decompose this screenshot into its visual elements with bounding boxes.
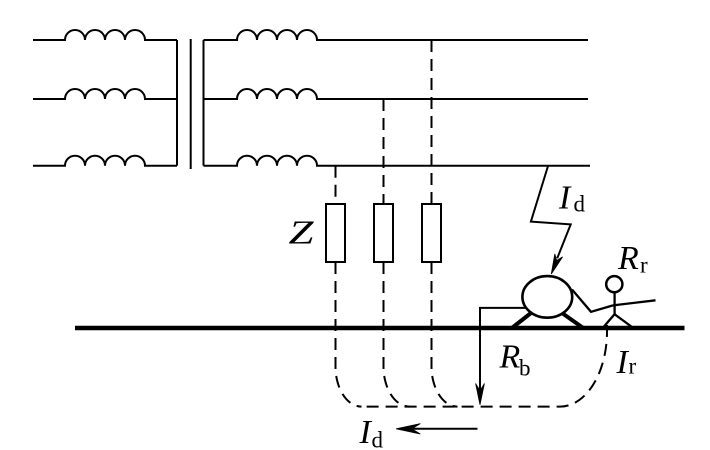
svg-text:b: b [519,356,531,381]
svg-text:I: I [359,414,373,450]
svg-text:d: d [574,192,586,217]
svg-text:r: r [629,353,637,378]
svg-text:I: I [558,180,572,217]
svg-text:d: d [372,428,384,450]
svg-text:R: R [499,339,521,376]
svg-text:I: I [616,344,630,381]
svg-text:Z: Z [289,214,315,252]
svg-text:r: r [640,253,648,278]
svg-text:R: R [617,240,639,277]
